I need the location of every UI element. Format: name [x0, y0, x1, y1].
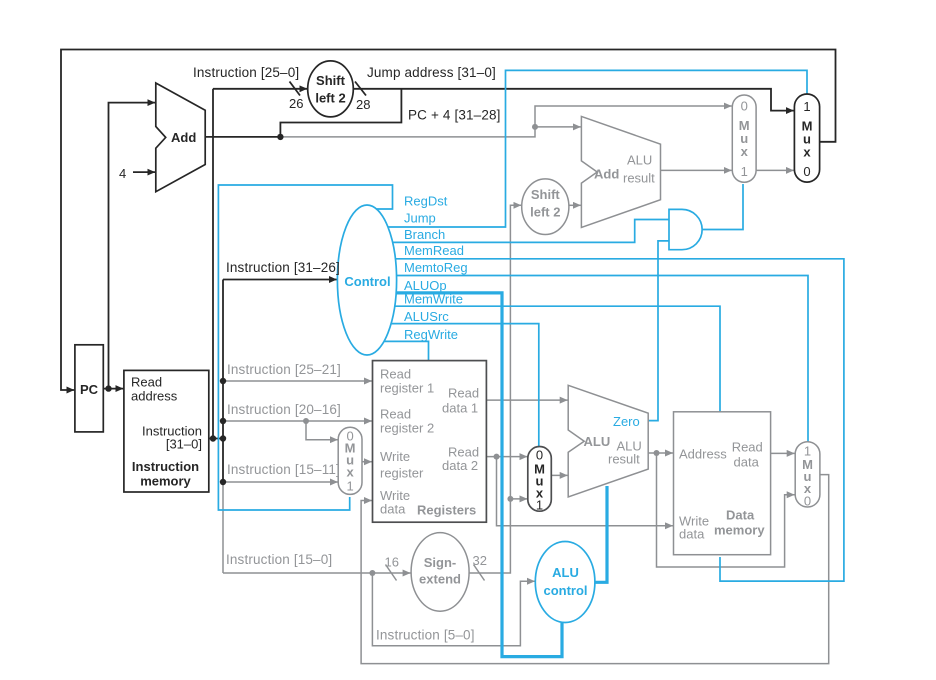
- svg-text:Address: Address: [679, 447, 727, 462]
- instruction memory box: [124, 370, 209, 492]
- svg-text:x: x: [346, 465, 354, 480]
- svg-text:32: 32: [473, 553, 487, 568]
- svg-text:1: 1: [741, 164, 748, 179]
- wire: MemtoReg control signal to memtoreg mux select: [367, 276, 808, 445]
- mux memtoreg: [795, 442, 820, 507]
- mux alusrc: [528, 447, 552, 512]
- registers box: [373, 361, 487, 523]
- svg-text:ALU: ALU: [552, 565, 579, 580]
- wire: sign extend branch to alusrc mux 1 input: [510, 498, 527, 500]
- svg-text:result: result: [623, 171, 655, 186]
- wire: instruction [25-21] to read register 1: [223, 380, 372, 382]
- svg-text:ALU: ALU: [584, 434, 611, 449]
- wire: PC output to instruction memory read address: [103, 388, 123, 390]
- wire: ALU control output to ALU (thick): [593, 486, 607, 582]
- adder Add (branch target): [581, 116, 660, 227]
- wire: read data 1 to ALU top input: [486, 399, 567, 401]
- wire: Branch control signal to AND gate top input: [367, 220, 669, 243]
- svg-text:ALUSrc: ALUSrc: [404, 309, 449, 324]
- svg-text:1: 1: [803, 99, 810, 114]
- AND gate (branch): [669, 209, 702, 249]
- wire: MemRead control signal to data memory bottom: [367, 259, 844, 581]
- mux regdst (write register select): [338, 427, 362, 494]
- wire: instruction [25-0] vertical from instruction memory: [212, 89, 214, 439]
- junction: sign extend output branch node: [507, 496, 513, 502]
- wire: branch mux output to jump mux 0 input: [756, 169, 794, 171]
- junction: PC+4 node: [277, 134, 283, 140]
- shift left 2 ellipse (jump): [308, 61, 354, 117]
- junction: ALU result branch node: [654, 450, 660, 456]
- wire: Zero output from ALU to AND gate bottom input: [645, 241, 669, 421]
- control unit ellipse: [337, 205, 396, 355]
- svg-text:Instruction [31–26]: Instruction [31–26]: [226, 260, 340, 275]
- svg-text:RegDst: RegDst: [404, 194, 448, 209]
- wire: instruction vertical gray lower part: [222, 482, 224, 573]
- mux branch: [732, 95, 756, 182]
- ALU control ellipse: [535, 542, 595, 623]
- data memory box: [674, 412, 771, 555]
- wire: instruction [5-0] down and into ALU control: [372, 573, 535, 646]
- svg-text:Jump address [31–0]: Jump address [31–0]: [367, 65, 496, 80]
- svg-text:data 2: data 2: [442, 458, 478, 473]
- svg-text:x: x: [741, 144, 749, 159]
- svg-text:Instruction [25–0]: Instruction [25–0]: [193, 65, 299, 80]
- svg-text:Instruction [25–21]: Instruction [25–21]: [227, 362, 341, 377]
- wire: Jump control signal to jump mux select: [367, 70, 807, 227]
- wire: instruction [20-16] to read register 2: [223, 420, 372, 422]
- svg-text:0: 0: [741, 99, 748, 114]
- wire: PC+4 [31-28] up to jump address bus: [280, 89, 401, 137]
- svg-text:data: data: [380, 502, 406, 517]
- svg-text:Write: Write: [380, 449, 410, 464]
- svg-text:Zero: Zero: [613, 414, 640, 429]
- wire: read data 2 branch down to data memory write data: [497, 457, 674, 526]
- wire: alusrc mux output to ALU bottom input: [551, 474, 567, 476]
- wire: instruction vertical black mid part: [222, 439, 224, 483]
- svg-text:28: 28: [356, 97, 370, 112]
- junction: instruction [15-0] sign extend node: [369, 570, 375, 576]
- svg-text:data 1: data 1: [442, 401, 478, 416]
- svg-text:left 2: left 2: [315, 91, 345, 106]
- svg-text:Read: Read: [380, 407, 411, 422]
- svg-text:MemRead: MemRead: [404, 243, 464, 258]
- svg-text:Add: Add: [594, 167, 619, 182]
- svg-text:Instruction [15–0]: Instruction [15–0]: [226, 552, 332, 567]
- wire: memtoreg mux output wrap around to registers write data: [361, 475, 829, 664]
- svg-text:RegWrite: RegWrite: [404, 327, 458, 342]
- svg-text:Add: Add: [171, 130, 196, 145]
- svg-text:0: 0: [804, 494, 811, 509]
- wire: RegDst control signal to regdst mux select: [218, 185, 392, 510]
- wire: instruction [31-26] vertical to control: [222, 280, 224, 439]
- wire: ALU result to data memory address: [648, 452, 673, 454]
- wire: read data 2 to alusrc mux 0 input: [486, 456, 527, 458]
- svg-text:Branch: Branch: [404, 227, 445, 242]
- wire: MemWrite control signal to data memory top: [367, 306, 720, 414]
- svg-text:0: 0: [536, 448, 543, 463]
- svg-text:[31–0]: [31–0]: [166, 437, 202, 452]
- svg-text:26: 26: [289, 96, 303, 111]
- shift left 2 ellipse (branch): [522, 179, 569, 235]
- svg-text:MemWrite: MemWrite: [404, 292, 463, 307]
- svg-text:Instruction [5–0]: Instruction [5–0]: [376, 628, 475, 643]
- sign extend ellipse: [411, 533, 469, 612]
- wire: jump address [31-0] from shift left 2 to jump mux input 1: [352, 89, 794, 111]
- junction: instruction bus node [15-11]: [220, 479, 226, 485]
- junction: instruction bus node for jump field: [210, 435, 216, 441]
- svg-text:Instruction [15–11]: Instruction [15–11]: [227, 462, 340, 477]
- svg-text:data: data: [734, 455, 760, 470]
- junction: read data 2 branch node: [494, 454, 500, 460]
- wire: ALU result branch around to memtoreg mux 0 input: [657, 453, 795, 567]
- svg-text:Sign-: Sign-: [424, 555, 457, 570]
- svg-text:Jump: Jump: [404, 211, 436, 226]
- wire: RegWrite control signal to registers top: [367, 341, 429, 362]
- svg-text:MemtoReg: MemtoReg: [404, 260, 468, 275]
- adder Add (PC+4): [156, 83, 205, 192]
- wire: sign extend output up to shift left 2: [469, 205, 521, 573]
- wire: instruction [15-11] to regdst mux 1 input: [223, 481, 338, 483]
- svg-text:1: 1: [536, 498, 543, 513]
- svg-text:Read: Read: [732, 440, 763, 455]
- svg-text:Control: Control: [344, 274, 390, 289]
- svg-text:register: register: [380, 466, 424, 481]
- svg-text:Read: Read: [380, 367, 411, 382]
- svg-text:result: result: [608, 452, 640, 467]
- svg-text:Data: Data: [726, 508, 755, 523]
- junction: PC+4 to branch adder node: [532, 124, 538, 130]
- wire: jump mux output feedback to PC (top border): [61, 50, 836, 391]
- wire: second Add result to branch mux 1 input: [660, 169, 732, 171]
- slash: 16-bit width mark: [386, 565, 397, 581]
- wire: instruction [15-0] to sign extend: [223, 572, 411, 574]
- junction: instruction bus node [25-21]: [220, 378, 226, 384]
- wire: instruction memory output stub: [209, 438, 223, 440]
- svg-text:address: address: [131, 389, 178, 404]
- svg-text:Read: Read: [448, 386, 479, 401]
- junction: instruction bus node [20-16]: [220, 418, 226, 424]
- wire: regdst mux output to write register: [362, 461, 372, 463]
- wire: PC+4 gray to branch mux 0 input: [280, 106, 731, 137]
- junction: PC output node: [105, 385, 111, 391]
- svg-text:register 2: register 2: [380, 421, 434, 436]
- wire: instruction [31-26] horizontal into control: [223, 279, 337, 281]
- PC register box: [75, 345, 103, 432]
- svg-text:Shift: Shift: [531, 187, 561, 202]
- svg-text:PC + 4 [31–28]: PC + 4 [31–28]: [408, 108, 501, 123]
- svg-text:memory: memory: [140, 474, 191, 489]
- wire: AND gate output to branch mux select: [703, 184, 743, 230]
- svg-text:memory: memory: [714, 523, 765, 538]
- svg-text:PC: PC: [80, 382, 99, 397]
- svg-text:ALU: ALU: [627, 153, 652, 168]
- svg-text:control: control: [543, 583, 587, 598]
- slash: 26-bit width mark: [290, 82, 301, 96]
- ALU main: [568, 385, 648, 497]
- svg-text:left 2: left 2: [530, 205, 560, 220]
- wire: Add PC+4 output to junction: [204, 136, 280, 138]
- svg-text:16: 16: [385, 555, 399, 570]
- junction: instruction [20-16] mux branch node: [303, 418, 309, 424]
- junction: instruction bus node main: [220, 435, 226, 441]
- svg-text:register 1: register 1: [380, 381, 434, 396]
- svg-text:Shift: Shift: [316, 73, 346, 88]
- wire: data memory read data to memtoreg mux 1 input: [771, 452, 795, 454]
- wire: ALUSrc control signal to alusrc mux select: [367, 324, 539, 449]
- svg-text:Read: Read: [131, 375, 162, 390]
- svg-text:Registers: Registers: [417, 503, 476, 518]
- svg-text:1: 1: [346, 479, 353, 494]
- wire: constant 4 into Add: [133, 171, 155, 173]
- wire: ALUOp control signal to ALU control (thick): [367, 293, 562, 657]
- svg-text:extend: extend: [419, 572, 461, 587]
- mux jump: [794, 94, 819, 182]
- wire: PC output up to Add input: [109, 103, 156, 389]
- svg-text:Instruction: Instruction: [132, 459, 199, 474]
- svg-text:4: 4: [119, 166, 126, 181]
- wire: instruction [20-16] branch down to regdst mux 0 input: [306, 421, 338, 440]
- slash: 28-bit width mark: [355, 82, 366, 96]
- wire: instruction [25-0] horizontal into shift left 2: [213, 88, 307, 90]
- slash: 32-bit width mark: [474, 565, 485, 581]
- svg-text:x: x: [803, 145, 811, 160]
- svg-text:0: 0: [803, 164, 810, 179]
- wire: PC+4 branch into second Add top input: [535, 126, 581, 128]
- svg-text:data: data: [679, 527, 705, 542]
- svg-text:Instruction [20–16]: Instruction [20–16]: [227, 402, 341, 417]
- wire: shift left 2 output into second Add bottom input: [569, 204, 581, 206]
